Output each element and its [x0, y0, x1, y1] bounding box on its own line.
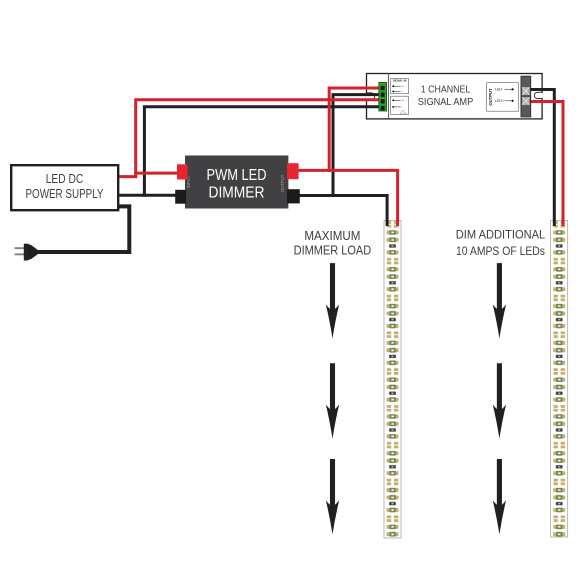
wire: power supply negative to dimmer input (black)	[117, 194, 177, 197]
wire: amp LED+ output to LED strip LS2 (red)	[529, 102, 563, 227]
amp right strain-relief notch	[534, 92, 542, 98]
svg-text:DIMMER LOAD: DIMMER LOAD	[294, 242, 372, 257]
arrow A2	[326, 363, 339, 438]
svg-text:DIM ADDITIONAL: DIM ADDITIONAL	[456, 228, 546, 242]
svg-text:SIGNAL AMP: SIGNAL AMP	[418, 96, 474, 108]
AC plug P1 body	[24, 244, 27, 261]
wire: dimmer output negative to LED strip LS1 (black)	[287, 196, 387, 227]
amp left strain-relief notch	[366, 93, 375, 100]
svg-text:SIGNAL IN: SIGNAL IN	[393, 78, 407, 82]
wire: AC power cord from plug to power supply (black)	[38, 206, 129, 252]
dimmer input red connector	[177, 164, 188, 179]
dimmer output red connector	[287, 163, 299, 179]
svg-text:PWM LED: PWM LED	[207, 167, 267, 184]
svg-text:OUTPUT: OUTPUT	[488, 88, 493, 106]
wire: power supply negative branch up to amp DC- (black)	[144, 107, 380, 197]
arrow A1	[326, 263, 339, 338]
svg-text:OUTPUT: OUTPUT	[280, 174, 285, 192]
svg-text:MAXIMUM: MAXIMUM	[304, 228, 360, 243]
amp DC input detail box	[391, 96, 409, 115]
svg-text:+: +	[402, 99, 404, 103]
dimmer output black connector	[287, 189, 300, 203]
wire: power supply positive stub (red)	[117, 175, 137, 178]
svg-text:DC IN: DC IN	[400, 113, 406, 115]
amp internal divider	[388, 74, 390, 119]
svg-text:-: -	[402, 105, 403, 109]
dimmer U1 label	[207, 167, 267, 202]
wire: dimmer output positive to LED strip LS1 (red)	[287, 170, 398, 226]
arrow A6	[493, 459, 506, 534]
wire: dimmer output positive branch up to amp signal+ (red)	[329, 88, 381, 172]
LED strip LS1 (maximum dimmer load strip)	[384, 220, 401, 538]
arrow A3	[326, 459, 339, 534]
svg-text:1 CHANNEL: 1 CHANNEL	[421, 84, 471, 96]
svg-text:DIMMER: DIMMER	[209, 184, 265, 201]
signal amplifier U2 box	[367, 74, 543, 119]
amp output screw terminal block	[521, 76, 531, 117]
label: dim additional 10 amps	[456, 228, 546, 259]
wire: power supply positive branch up to amp DC+ (red)	[136, 100, 381, 178]
LED strip LS2 (additional 10A strip)	[551, 220, 568, 537]
wire: amp LED- output to LED strip LS2 (black)	[529, 90, 554, 227]
wire: dimmer output negative branch up to amp signal- (black)	[333, 95, 381, 197]
svg-text:LED+: LED+	[495, 99, 504, 103]
dimmer input black connector	[175, 190, 186, 204]
power supply PS1 box	[11, 165, 118, 210]
PWM dimmer U1 body	[185, 156, 288, 209]
svg-text:+: +	[402, 84, 404, 88]
wire: power supply positive to dimmer input (red)	[134, 172, 177, 175]
svg-text:POWER SUPPLY: POWER SUPPLY	[26, 187, 105, 201]
arrow A5	[493, 363, 506, 438]
label: maximum dimmer load	[294, 228, 372, 257]
amp title label	[418, 84, 474, 108]
AC plug P1 prongs	[15, 247, 25, 255]
amp green input terminal block	[379, 82, 387, 111]
amp OUTPUT detail box	[487, 83, 519, 112]
svg-text:10 AMPS OF LEDs: 10 AMPS OF LEDs	[456, 244, 545, 258]
svg-text:LED-: LED-	[495, 88, 504, 92]
arrow A4	[493, 263, 506, 338]
power supply PS1 label	[26, 172, 105, 201]
svg-text:-: -	[402, 90, 403, 94]
amp SIGNAL IN detail box	[391, 78, 409, 93]
svg-text:LED DC: LED DC	[46, 172, 84, 186]
